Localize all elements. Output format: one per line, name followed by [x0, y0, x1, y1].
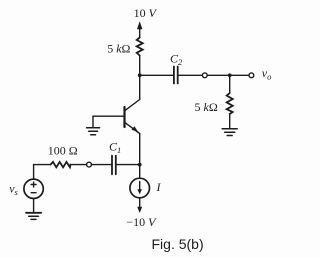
svg-text:vs: vs	[9, 182, 18, 198]
svg-text:10 V: 10 V	[134, 6, 158, 20]
svg-text:Fig. 5(b): Fig. 5(b)	[152, 236, 204, 252]
svg-text:100 Ω: 100 Ω	[48, 143, 78, 157]
svg-text:5 kΩ: 5 kΩ	[107, 42, 130, 56]
svg-text:vo: vo	[262, 66, 272, 82]
svg-text:5 kΩ: 5 kΩ	[195, 100, 218, 114]
svg-text:−10 V: −10 V	[126, 215, 157, 229]
svg-text:C1: C1	[109, 139, 121, 155]
svg-text:I: I	[156, 180, 162, 194]
svg-text:C2: C2	[170, 52, 183, 68]
